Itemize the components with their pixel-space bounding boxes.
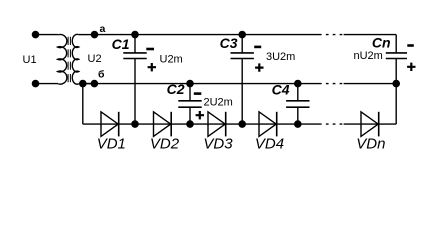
svg-text:C1: C1: [112, 36, 130, 52]
node dot primary top: [32, 31, 40, 39]
svg-text:VD2: VD2: [150, 136, 180, 153]
junction dot C1 bottom: [131, 120, 139, 128]
svg-text:U2: U2: [88, 53, 102, 65]
wire secondary top to node a: [79, 34, 95, 36]
capacitor C1: [134, 35, 136, 53]
svg-text:VD1: VD1: [97, 136, 126, 153]
transformer T1 primary wire bottom: [36, 83, 59, 85]
junction dot C4 bottom: [294, 120, 302, 128]
wire Cn top drop: [395, 35, 397, 53]
plus sign C2: [196, 111, 204, 119]
wire top bus: [95, 34, 322, 36]
svg-text:б: б: [98, 69, 105, 81]
wire bottom bus break dots: [326, 123, 342, 125]
wire top bus break dots: [326, 34, 342, 36]
minus sign Cn: [407, 44, 414, 47]
diode VD4: [259, 112, 276, 137]
node a dot: [91, 31, 99, 39]
wire Cn bottom drop: [395, 59, 397, 125]
minus sign C3: [254, 46, 261, 49]
svg-text:VD4: VD4: [255, 136, 284, 153]
svg-text:a: a: [100, 23, 106, 35]
wire bottom bus right segment: [344, 123, 397, 125]
transformer core line 1: [67, 37, 69, 84]
svg-text:U2m: U2m: [160, 54, 183, 66]
diode VD3: [208, 112, 225, 137]
capacitor C4: [297, 84, 299, 101]
junction dot C4 top: [294, 80, 302, 88]
wire left drop from node b to diode chain: [82, 84, 84, 125]
junction dot C3 bottom: [238, 120, 246, 128]
minus sign C1: [146, 48, 154, 51]
wire middle bus break dots: [326, 83, 342, 85]
plus sign C1: [148, 63, 156, 71]
minus sign C2: [194, 92, 202, 95]
plus sign C3: [255, 63, 263, 71]
transformer core line 2: [69, 37, 71, 84]
diode VDn: [361, 112, 378, 137]
svg-text:Cn: Cn: [372, 35, 391, 51]
svg-text:2U2m: 2U2m: [204, 97, 233, 109]
svg-text:C2: C2: [167, 81, 185, 97]
svg-text:VD3: VD3: [203, 136, 233, 153]
svg-text:C3: C3: [220, 35, 238, 51]
diode VD1: [101, 112, 118, 137]
diode VD2: [154, 112, 171, 137]
junction dot Cn middle: [392, 80, 400, 88]
node dot primary bottom: [32, 80, 40, 88]
wire top bus right segment: [344, 34, 397, 36]
node dot secondary bottom junction: [79, 80, 87, 88]
svg-text:3U2m: 3U2m: [266, 51, 295, 63]
svg-text:nU2m: nU2m: [354, 50, 383, 62]
wire middle bus right segment: [344, 83, 397, 85]
junction dot C2 top: [186, 80, 194, 88]
plus sign Cn: [407, 63, 415, 71]
wire bottom bus: [83, 123, 322, 125]
capacitor Cn: [386, 53, 407, 59]
transformer T1 secondary winding: [72, 34, 79, 84]
capacitor C2: [189, 84, 191, 101]
svg-text:C4: C4: [272, 82, 290, 98]
svg-text:VDn: VDn: [356, 136, 385, 153]
junction dot C2 bottom: [186, 120, 194, 128]
wire middle bus (node b): [83, 83, 322, 85]
junction dot C1 top: [131, 31, 139, 39]
wire secondary bottom to node b: [79, 83, 95, 85]
node b dot: [91, 80, 99, 88]
svg-text:U1: U1: [23, 54, 37, 66]
capacitor C3: [241, 35, 243, 53]
junction dot C3 top: [238, 31, 246, 39]
transformer T1 primary wire top: [36, 34, 59, 36]
transformer T1 primary winding: [58, 34, 67, 84]
